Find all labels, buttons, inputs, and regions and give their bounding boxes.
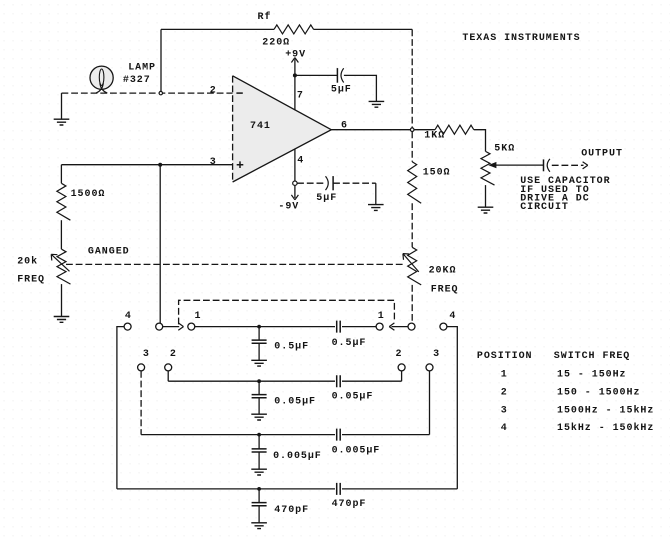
- resistor 1500 ohm: [57, 183, 71, 220]
- wire output to 1K: [414, 129, 435, 131]
- svg-text:3: 3: [210, 157, 217, 168]
- wire L4 route: [117, 327, 124, 489]
- svg-text:15 - 150Hz: 15 - 150Hz: [557, 370, 627, 381]
- svg-text:1500Ω: 1500Ω: [71, 189, 106, 200]
- capacitor output coupling: [543, 159, 545, 171]
- wire row4 shunt ground lead: [258, 506, 260, 523]
- lamp LAMP #327: [90, 66, 113, 89]
- svg-text:-9V: -9V: [278, 202, 299, 213]
- svg-text:SWITCH FREQ: SWITCH FREQ: [554, 351, 630, 362]
- switch wiper arrow right: [392, 326, 408, 328]
- wire 5K to ground: [485, 185, 487, 207]
- ground: [251, 360, 267, 366]
- capacitor C- 5uF: [326, 176, 329, 190]
- op-amp plus sign: [237, 161, 244, 168]
- potentiometer 20k left: [57, 249, 71, 284]
- switch terminal L3: [138, 364, 145, 371]
- ground: [251, 469, 267, 475]
- wire 1500 ohm top lead: [60, 165, 62, 184]
- wire pin 3 horizontal: [61, 164, 232, 166]
- wire ground drop left: [61, 93, 63, 119]
- junction row3: [257, 433, 261, 437]
- op-amp minus sign: [236, 92, 242, 94]
- svg-text:220Ω: 220Ω: [262, 38, 290, 49]
- ground: [251, 523, 267, 529]
- wire row2 right: [342, 380, 402, 382]
- wire mid vertical to switch: [159, 165, 161, 324]
- wire dashed switch link: [179, 300, 395, 324]
- svg-text:0.05µF: 0.05µF: [332, 392, 374, 403]
- ground: [368, 205, 384, 211]
- svg-text:2: 2: [210, 85, 217, 96]
- svg-text:GANGED: GANGED: [88, 247, 130, 258]
- svg-text:2: 2: [170, 349, 177, 360]
- svg-text:4: 4: [125, 311, 132, 322]
- svg-text:470pF: 470pF: [274, 505, 309, 516]
- capacitor 470pF series: [337, 483, 341, 495]
- svg-text:#327: #327: [123, 75, 151, 86]
- switch terminal R2: [398, 364, 405, 371]
- wire row1 left: [195, 326, 335, 328]
- svg-text:150Ω: 150Ω: [423, 168, 451, 179]
- svg-text:TEXAS INSTRUMENTS: TEXAS INSTRUMENTS: [462, 33, 580, 44]
- wire pin 7 vertical: [294, 75, 296, 110]
- switch wiper arrow left: [163, 326, 179, 328]
- svg-text:FREQ: FREQ: [431, 285, 459, 296]
- node +9V supply arrow: [294, 59, 296, 75]
- svg-text:5µF: 5µF: [316, 193, 337, 204]
- junction output node: [410, 128, 414, 132]
- svg-text:150 - 1500Hz: 150 - 1500Hz: [557, 387, 640, 398]
- switch terminal R1: [376, 323, 383, 330]
- wire row3 right: [342, 434, 430, 436]
- wire dashed feedback vertical upper: [411, 29, 413, 127]
- wire Rf top right: [314, 28, 413, 30]
- ground: [478, 207, 494, 213]
- wire pin 4 vertical: [294, 149, 296, 181]
- wire pin 6 output: [331, 129, 410, 131]
- potentiometer 20K right: [408, 247, 422, 285]
- wire row3 left: [141, 434, 335, 436]
- node -9V supply arrow: [294, 185, 296, 198]
- svg-text:4: 4: [297, 156, 304, 167]
- svg-text:1KΩ: 1KΩ: [424, 130, 445, 141]
- wire L3 drop dashed: [140, 371, 142, 435]
- svg-text:1: 1: [195, 311, 202, 322]
- capacitor 0.5uF shunt: [252, 340, 267, 343]
- capacitor 0.05uF shunt: [252, 395, 267, 398]
- wire 1K to 5K corner: [474, 130, 486, 152]
- svg-text:POSITION: POSITION: [477, 351, 533, 362]
- svg-text:0.5µF: 0.5µF: [274, 341, 309, 352]
- potentiometer 5K: [481, 151, 495, 185]
- op-amp U1 741: [233, 76, 332, 182]
- wire dashed pin4 to cap: [297, 182, 325, 184]
- junction pin3 node: [158, 163, 162, 167]
- capacitor 0.005uF shunt: [252, 449, 267, 452]
- svg-text:5KΩ: 5KΩ: [494, 143, 515, 154]
- ground: [54, 119, 70, 125]
- svg-text:3: 3: [143, 349, 150, 360]
- wire dashed output arrow: [552, 164, 584, 166]
- svg-text:7: 7: [297, 90, 304, 101]
- wire R3 drop: [429, 371, 431, 435]
- junction row4: [257, 487, 261, 491]
- wire row3 shunt ground lead: [258, 452, 260, 469]
- junction lamp node: [159, 91, 162, 94]
- wire row1 shunt ground lead: [258, 343, 260, 360]
- svg-text:20k: 20k: [17, 256, 38, 268]
- wire dashed 150 to pot: [411, 203, 413, 247]
- svg-text:3: 3: [433, 349, 440, 360]
- svg-text:15kHz - 150kHz: 15kHz - 150kHz: [557, 422, 654, 434]
- svg-text:741: 741: [250, 121, 271, 132]
- wire R2 drop: [401, 371, 403, 381]
- wire Rf left vertical: [160, 29, 162, 93]
- resistor 1K ohm: [435, 125, 474, 134]
- wire L2 drop: [167, 371, 169, 381]
- svg-text:4: 4: [449, 311, 456, 322]
- junction row1: [257, 325, 261, 329]
- wire R4 route: [447, 327, 457, 489]
- ground: [54, 317, 70, 323]
- svg-text:0.05µF: 0.05µF: [274, 396, 316, 407]
- capacitor 0.5uF series: [337, 321, 341, 333]
- wire pot to ground: [61, 284, 63, 316]
- wire dashed pot to switch: [411, 285, 413, 323]
- svg-text:1500Hz - 15kHz: 1500Hz - 15kHz: [557, 404, 654, 416]
- pot 20k wiper arrow: [51, 254, 69, 271]
- wire row2 left: [168, 380, 335, 382]
- switch terminal L1: [188, 323, 195, 330]
- svg-text:Rf: Rf: [258, 11, 272, 23]
- wire row4 shunt lead: [258, 489, 260, 503]
- svg-text:OUTPUT: OUTPUT: [581, 148, 623, 159]
- wire row2 shunt lead: [258, 381, 260, 394]
- switch terminal R4: [440, 323, 447, 330]
- ground: [251, 414, 267, 420]
- wire dashed inverting input (lamp line): [62, 92, 233, 94]
- wire dashed junction to 150: [411, 132, 413, 162]
- svg-text:3: 3: [501, 405, 508, 416]
- resistor 150 ohm: [408, 162, 422, 204]
- switch terminal L2: [165, 364, 172, 371]
- wire drop to ground bottom: [375, 183, 377, 204]
- wire row1 shunt lead: [258, 327, 260, 341]
- svg-text:2: 2: [396, 349, 403, 360]
- capacitor 0.005uF series: [337, 429, 341, 441]
- capacitor 0.05uF series: [337, 375, 341, 387]
- wire between 1500 and pot: [60, 220, 62, 249]
- wire dashed ganged link: [66, 263, 403, 265]
- wire row2 shunt ground lead: [258, 398, 260, 415]
- wire bypass cap to ground top: [344, 75, 377, 101]
- wire dashed cap to ground bottom: [333, 182, 376, 184]
- svg-text:5µF: 5µF: [331, 85, 352, 96]
- pin 4 terminal circle: [293, 181, 297, 185]
- switch common left: [156, 323, 163, 330]
- switch terminal L4: [124, 323, 131, 330]
- wire row4 left: [117, 488, 335, 490]
- svg-text:1: 1: [378, 311, 385, 322]
- svg-text:+9V: +9V: [285, 50, 306, 61]
- resistor Rf 220 ohm: [274, 25, 314, 34]
- wire row1 right: [342, 326, 376, 328]
- svg-text:1: 1: [501, 370, 508, 381]
- svg-text:FREQ: FREQ: [17, 275, 45, 286]
- junction pin7 node: [293, 73, 297, 77]
- svg-text:0.005µF: 0.005µF: [332, 446, 381, 457]
- switch common right: [408, 323, 415, 330]
- svg-text:0.5µF: 0.5µF: [332, 338, 367, 349]
- junction row2: [257, 379, 261, 383]
- svg-text:2: 2: [501, 387, 508, 398]
- pot 5K wiper arrow: [490, 164, 543, 166]
- capacitor C+ 5uF: [336, 68, 338, 83]
- wire Rf top left: [161, 28, 274, 30]
- svg-text:LAMP: LAMP: [128, 62, 156, 73]
- svg-text:CIRCUIT: CIRCUIT: [520, 202, 569, 213]
- svg-text:20KΩ: 20KΩ: [429, 266, 457, 277]
- wire row4 right: [342, 488, 457, 490]
- wire to +9V bypass cap: [295, 74, 337, 76]
- capacitor 470pF shunt: [252, 503, 267, 506]
- pot 20K wiper arrow: [403, 254, 419, 272]
- svg-text:470pF: 470pF: [332, 499, 367, 510]
- svg-text:4: 4: [501, 423, 508, 434]
- ground: [369, 101, 385, 107]
- switch terminal R3: [426, 364, 433, 371]
- svg-text:0.005µF: 0.005µF: [273, 451, 322, 462]
- wire row3 shunt lead: [258, 435, 260, 449]
